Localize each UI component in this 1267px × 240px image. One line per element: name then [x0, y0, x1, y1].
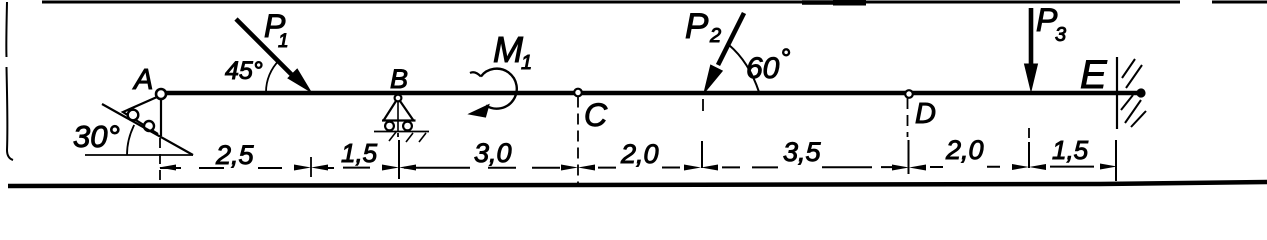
- extension line at B: [397, 133, 399, 139]
- dimension line segment P2-D: [722, 166, 895, 168]
- left border: [6, 2, 13, 160]
- extension line at P2: [702, 99, 704, 111]
- extension tick at P1: [310, 157, 312, 177]
- beam AE: [161, 91, 1140, 95]
- svg-text:°: °: [780, 43, 790, 73]
- support B triangle: [382, 101, 416, 121]
- svg-text:1,5: 1,5: [1052, 135, 1089, 165]
- roller B1: [385, 122, 394, 131]
- wall line at E: [1116, 57, 1118, 129]
- svg-text:3: 3: [1055, 24, 1066, 46]
- moment M1 arc: [481, 69, 517, 109]
- force P3 shaft: [1029, 8, 1034, 66]
- svg-text:1: 1: [521, 52, 532, 74]
- roller B2: [403, 122, 412, 131]
- extension line at A: [159, 138, 161, 182]
- top border: [42, 1, 1267, 4]
- baseline at A: [85, 154, 193, 156]
- svg-text:2,0: 2,0: [945, 135, 984, 165]
- roller A2: [144, 121, 154, 131]
- dimension line segment B-C: [404, 167, 560, 169]
- roller A1: [128, 110, 139, 121]
- force P3 arrowhead: [1025, 64, 1038, 91]
- beam end dot at E: [1136, 88, 1145, 97]
- svg-text:M: M: [493, 29, 523, 70]
- svg-text:1,5: 1,5: [341, 138, 378, 168]
- incline surface at A: [102, 104, 193, 155]
- wall hatching below beam: [1121, 95, 1146, 127]
- svg-text:D: D: [915, 98, 936, 130]
- support B pin: [395, 95, 402, 102]
- svg-text:E: E: [1080, 53, 1108, 97]
- svg-text:2,5: 2,5: [215, 140, 255, 170]
- dimension line segment D-P3: [930, 166, 1000, 168]
- moment M1 start hook: [470, 72, 481, 76]
- support B ground line: [374, 131, 429, 133]
- support A shoe bracket: [123, 97, 161, 136]
- svg-text:P: P: [685, 7, 709, 46]
- support B center line: [397, 101, 399, 131]
- svg-text:45°: 45°: [225, 57, 263, 85]
- moment M1 arrowhead: [469, 105, 489, 118]
- svg-text:1: 1: [278, 31, 289, 52]
- svg-text:60: 60: [746, 52, 780, 85]
- 45 degree arc: [266, 60, 279, 92]
- pin A: [156, 89, 166, 99]
- 60 degree arc: [729, 45, 759, 92]
- svg-text:A: A: [132, 64, 153, 96]
- node C: [574, 89, 582, 97]
- extension line at P3: [1028, 128, 1030, 138]
- support B hatches: [389, 132, 426, 142]
- svg-text:B: B: [390, 64, 408, 94]
- bottom border: [8, 182, 1267, 186]
- force P2 shaft: [718, 13, 744, 65]
- svg-text:30°: 30°: [73, 119, 120, 154]
- svg-text:3,5: 3,5: [783, 137, 822, 167]
- dimension line segment P3-E: [1050, 166, 1094, 168]
- svg-text:2: 2: [709, 25, 721, 47]
- force P1 shaft: [236, 19, 296, 79]
- node D: [905, 90, 913, 98]
- extension line at C: [577, 97, 579, 185]
- dimension arrows: [159, 164, 1117, 171]
- force P2 arrowhead: [704, 65, 722, 93]
- svg-text:3,0: 3,0: [474, 138, 512, 168]
- dimension line segment A-P1: [160, 167, 282, 169]
- svg-text:C: C: [584, 97, 608, 133]
- dimension line segment C-P2: [598, 167, 680, 169]
- dimension line segment P1-B: [325, 167, 370, 169]
- wall hatching above beam: [1122, 59, 1142, 88]
- svg-text:2,0: 2,0: [620, 139, 659, 169]
- force P1 arrowhead: [288, 69, 311, 92]
- extension tick at E: [1115, 140, 1117, 181]
- top border thick segment: [802, 0, 834, 5]
- extension line at D: [907, 98, 909, 137]
- 30 degree arc: [127, 125, 134, 155]
